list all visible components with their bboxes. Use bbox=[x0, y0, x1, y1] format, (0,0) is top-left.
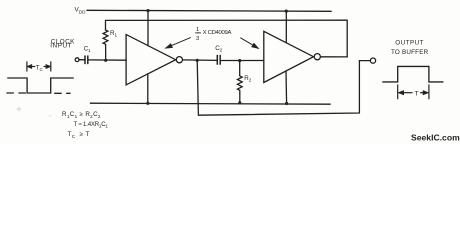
bubble U1 bbox=[176, 57, 182, 63]
resistor R1 bbox=[103, 30, 108, 60]
node dot U1 output bbox=[196, 59, 199, 62]
dashed baseline right bbox=[54, 92, 70, 94]
feedback wire R1 top to U2 output bbox=[106, 20, 348, 57]
svg-text:X CD4009A: X CD4009A bbox=[203, 30, 232, 36]
wire U1 output down and across to output terminal bbox=[197, 60, 370, 115]
output waveform bbox=[382, 66, 443, 82]
svg-text:TC ≥ T: TC ≥ T bbox=[68, 131, 90, 139]
clock input waveform bbox=[6, 78, 73, 93]
resistor R2 bbox=[237, 61, 242, 103]
wire C1 to U1 input bbox=[88, 59, 126, 61]
svg-text:SeekIC.com: SeekIC.com bbox=[411, 133, 460, 143]
wire U2 output to feedback corner bbox=[321, 56, 348, 58]
T measurement ticks and arrows bbox=[398, 84, 429, 99]
op-amp U1 inverter triangle bbox=[126, 35, 176, 85]
svg-text:OUTPUT: OUTPUT bbox=[395, 39, 424, 46]
faint registration mark bbox=[17, 107, 52, 116]
wire C2 to U2 input bbox=[221, 60, 264, 62]
svg-text:TC: TC bbox=[36, 64, 44, 72]
svg-text:1: 1 bbox=[196, 27, 199, 33]
node dot R2 ground bbox=[238, 101, 241, 104]
clock input terminal bbox=[75, 58, 79, 62]
label 1/3 X CD4009A bbox=[195, 27, 231, 42]
output terminal bbox=[370, 58, 375, 63]
node dot U2 ground bbox=[285, 102, 288, 105]
node dot Vdd-U2 bbox=[285, 10, 288, 13]
svg-text:R1: R1 bbox=[110, 30, 117, 38]
svg-text:3: 3 bbox=[196, 36, 199, 42]
svg-text:T: T bbox=[415, 90, 419, 97]
node dot U1 ground bbox=[146, 102, 149, 105]
wire U1 output to C2 bbox=[183, 59, 217, 62]
annotation arrow to U2 bbox=[240, 38, 253, 46]
svg-text:TO BUFFER: TO BUFFER bbox=[391, 49, 429, 56]
svg-text:INPUT: INPUT bbox=[50, 43, 72, 50]
Vss rail bbox=[91, 103, 331, 104]
svg-text:R2: R2 bbox=[244, 75, 251, 83]
wire U1 ground drop bbox=[147, 74, 149, 103]
capacitor C2 bbox=[216, 56, 218, 64]
wire terminal to C1 bbox=[79, 59, 84, 61]
svg-text:VDD: VDD bbox=[75, 7, 87, 15]
wire Vdd drop to U2 bbox=[285, 11, 287, 42]
Tc measurement ticks and arrows bbox=[27, 61, 51, 71]
capacitor C1 bbox=[84, 56, 86, 63]
svg-text:C2: C2 bbox=[215, 45, 222, 53]
wire U2 ground drop bbox=[285, 71, 288, 103]
node dot U1 input bbox=[104, 59, 107, 62]
svg-text:T ≈ 1.4XR1C1: T ≈ 1.4XR1C1 bbox=[74, 122, 109, 129]
op-amp U2 inverter triangle bbox=[264, 31, 314, 82]
wire Vdd drop to U1 bbox=[147, 11, 149, 46]
Vdd rail bbox=[87, 10, 331, 11]
node dot U2 input bbox=[238, 59, 241, 62]
node dot Vdd-U1 bbox=[146, 9, 149, 12]
dashed baseline left bbox=[6, 92, 26, 94]
svg-text:R1C1 ≥ R2C2: R1C1 ≥ R2C2 bbox=[62, 111, 101, 119]
bubble U2 bbox=[314, 54, 320, 60]
svg-text:C1: C1 bbox=[84, 45, 91, 53]
annotation arrow to U1 bbox=[166, 37, 258, 48]
